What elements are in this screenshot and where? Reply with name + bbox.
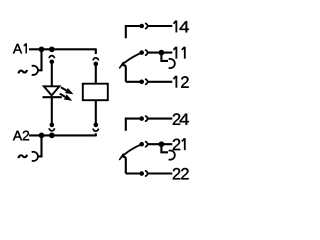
clamp terminal A2 <box>32 152 38 161</box>
wire A1 clamp drop <box>38 49 41 70</box>
wire 14 to terminal <box>148 25 173 27</box>
wire 21 clamp drop <box>161 144 168 152</box>
plug socket contact 14 <box>145 23 148 28</box>
LED D1 <box>44 86 60 95</box>
terminal label 24 <box>173 113 189 124</box>
plug pin contact 12 <box>139 80 144 85</box>
wire contact 14 with NO stub <box>126 26 142 38</box>
terminal label 14 <box>180 21 189 32</box>
plug pin contact 24 <box>139 116 144 121</box>
terminal label A2 <box>13 131 29 141</box>
plug socket coil bottom <box>93 129 98 132</box>
lever contact tick 21 <box>119 154 123 160</box>
switch lever contact 21 <box>122 145 140 157</box>
wire 11 clamp drop <box>161 53 168 61</box>
wire contact 24 with NO stub <box>126 119 142 131</box>
plug socket contact 21 <box>145 142 148 147</box>
wire A2 clamp drop <box>38 135 41 156</box>
plug socket coil top <box>93 58 98 61</box>
plug pin contact 14 <box>139 24 144 29</box>
plug socket contact 11 <box>145 50 148 55</box>
terminal label 11 <box>173 47 184 59</box>
lever contact tick <box>119 62 123 68</box>
AC symbol at A1 <box>18 70 27 73</box>
junction contact 21 <box>159 141 165 147</box>
wire LED anode <box>51 62 53 87</box>
LED light arrow upper <box>61 87 74 94</box>
plug pin coil top <box>94 62 99 67</box>
plug pin LED branch top <box>50 60 55 65</box>
relay coil K1 <box>83 84 108 101</box>
LED light arrow lower <box>60 94 73 101</box>
junction A2-LED branch <box>49 133 55 139</box>
terminal label 21 <box>173 139 180 150</box>
junction A1-clamp branch <box>39 46 45 52</box>
LED cathode bar <box>43 96 62 98</box>
clamp terminal A1 <box>32 66 38 75</box>
plug socket contact 12 <box>145 79 148 84</box>
wire 12 to terminal <box>126 81 173 83</box>
terminal label 12 <box>181 76 188 87</box>
wire coil branch bottom stub <box>95 133 97 136</box>
wire 22 to terminal <box>126 172 173 174</box>
wire LED cathode <box>51 97 53 125</box>
terminal label A1 <box>13 44 22 54</box>
plug pin contact 22 <box>139 171 144 176</box>
junction contact 11 <box>159 50 165 56</box>
wire A1 rail <box>29 48 96 50</box>
plug socket contact 24 <box>145 116 148 121</box>
wire 21 to terminal <box>148 143 173 145</box>
plug pin contact 11 <box>139 50 144 55</box>
wire coil upper lead <box>95 64 97 84</box>
plug pin LED branch bottom <box>50 123 55 128</box>
wire coil lower lead <box>95 100 97 125</box>
wire 11 to terminal <box>148 52 173 54</box>
wire NC riser to contact 22 <box>122 156 126 173</box>
plug socket LED branch bottom <box>49 128 54 131</box>
junction A2-clamp branch <box>39 133 45 139</box>
wire coil branch top <box>95 48 97 54</box>
plug pin coil bottom <box>94 123 99 128</box>
clamp terminal 11 <box>169 59 175 68</box>
junction A1-LED branch <box>49 46 55 52</box>
wire 24 to terminal <box>148 118 173 120</box>
switch lever contact 11 <box>122 54 140 66</box>
terminal label 22 <box>173 168 189 179</box>
wire A2 rail <box>29 134 96 136</box>
clamp terminal 21 <box>169 150 175 159</box>
plug pin contact 21 <box>139 142 144 147</box>
wire NC riser to contact 12 <box>122 65 126 82</box>
plug socket contact 22 <box>145 171 148 176</box>
plug socket LED branch top <box>49 56 54 59</box>
AC symbol at A2 <box>18 155 27 158</box>
